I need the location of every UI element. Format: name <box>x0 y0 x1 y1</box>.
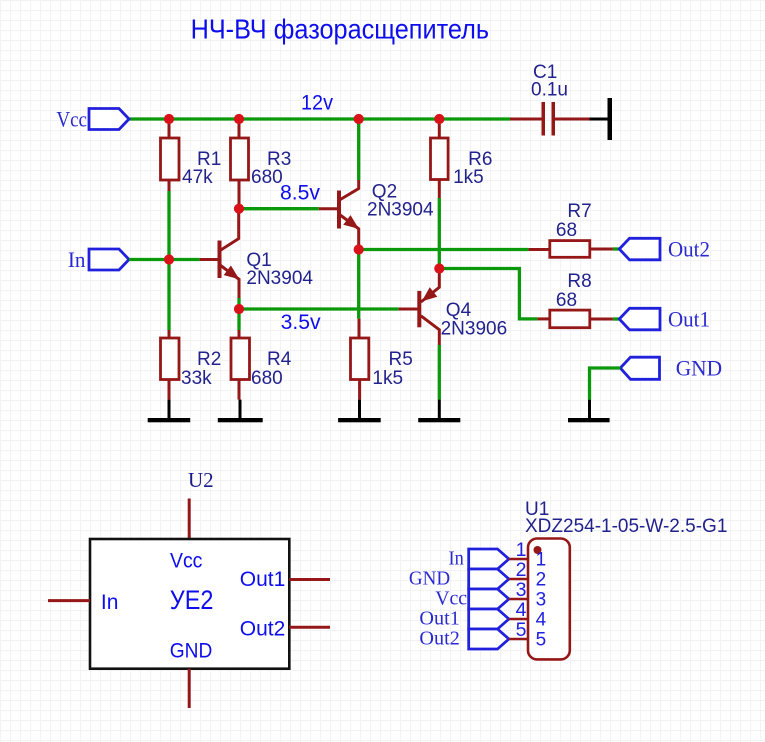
svg-text:1k5: 1k5 <box>453 167 484 188</box>
svg-text:1: 1 <box>536 550 547 571</box>
svg-text:Vcc: Vcc <box>170 550 202 573</box>
port Out1 <box>619 308 660 330</box>
ground under R2 <box>168 400 171 418</box>
svg-text:Out1: Out1 <box>419 608 459 630</box>
svg-text:Out2: Out2 <box>240 618 286 641</box>
wire In <box>129 258 200 261</box>
wire to Out1 <box>613 317 619 320</box>
net flag GND <box>469 569 509 589</box>
resistor R4 <box>238 330 241 338</box>
resistor R6 <box>438 119 441 138</box>
svg-text:2: 2 <box>536 570 547 591</box>
resistor R5 <box>358 319 361 338</box>
ground under Q4 <box>438 400 441 418</box>
svg-text:47k: 47k <box>182 167 213 188</box>
resistor R1 <box>168 119 171 138</box>
net flag Out1 <box>469 609 509 629</box>
svg-text:680: 680 <box>251 167 283 188</box>
svg-text:In: In <box>101 591 119 614</box>
svg-text:2N3904: 2N3904 <box>367 200 434 221</box>
wire 3.5v to R4 <box>237 309 240 330</box>
svg-text:R2: R2 <box>197 349 221 370</box>
transistor Q4 <box>399 269 440 346</box>
svg-text:5: 5 <box>516 619 527 641</box>
port In <box>89 249 129 270</box>
wire 8.5v <box>239 207 319 210</box>
junction Q2 emitter node <box>354 244 364 254</box>
svg-text:Vcc: Vcc <box>56 106 87 131</box>
svg-text:68: 68 <box>556 290 577 311</box>
svg-text:Out2: Out2 <box>419 628 459 650</box>
svg-text:GND: GND <box>409 568 450 590</box>
wire node to R8 <box>439 269 537 319</box>
ground at C1 <box>590 118 608 121</box>
svg-text:НЧ-ВЧ фазорасщепитель: НЧ-ВЧ фазорасщепитель <box>191 14 489 45</box>
wire 3.5v to Q4 base <box>239 307 399 310</box>
svg-text:УЕ2: УЕ2 <box>170 585 214 615</box>
svg-text:1k5: 1k5 <box>372 368 403 389</box>
svg-text:0.1u: 0.1u <box>531 80 568 101</box>
junction Q4 emitter node <box>434 263 444 273</box>
wire Q2e to R5 <box>357 250 360 319</box>
svg-text:Out2: Out2 <box>668 236 710 261</box>
ground at GND port <box>588 400 591 418</box>
net flag Out2 <box>469 629 509 649</box>
wire Q1 emitter <box>237 298 240 309</box>
wire Q2 emitter <box>357 245 360 250</box>
junction In node <box>164 254 174 264</box>
resistor R2 <box>168 330 171 338</box>
net flag In <box>469 549 509 569</box>
U1 pin 4 stub <box>509 618 529 621</box>
U1 pin 1 stub <box>509 558 529 561</box>
svg-text:4: 4 <box>516 599 527 621</box>
port Out2 <box>619 238 660 259</box>
svg-text:12v: 12v <box>301 92 333 115</box>
U2 pin Out2 (right) <box>289 626 330 629</box>
svg-text:R5: R5 <box>389 349 413 370</box>
wire 12v rail <box>129 117 510 120</box>
junction 3.5v node <box>234 304 244 314</box>
svg-text:XDZ254-1-05-W-2.5-G1: XDZ254-1-05-W-2.5-G1 <box>525 516 727 537</box>
svg-text:In: In <box>449 548 464 570</box>
junction Vcc-R1 <box>164 114 174 124</box>
resistor R3 <box>238 119 241 138</box>
wire Q2e to R7 <box>359 248 529 251</box>
wire GND port <box>590 368 621 400</box>
U1 pin 1 marker dot <box>534 546 542 554</box>
U2 pin 1 (top) <box>188 499 191 540</box>
svg-text:GND: GND <box>676 356 722 381</box>
U1 pin 5 stub <box>509 638 529 641</box>
U1 pin 3 stub <box>509 598 529 601</box>
svg-text:2: 2 <box>516 559 527 581</box>
U1 pin 2 stub <box>509 578 529 581</box>
svg-text:3.5v: 3.5v <box>281 311 321 334</box>
junction Vcc-R6 <box>434 114 444 124</box>
svg-text:2N3904: 2N3904 <box>246 268 313 289</box>
svg-text:Out1: Out1 <box>240 568 286 591</box>
ground under R4 <box>239 400 242 418</box>
svg-text:Vcc: Vcc <box>435 588 467 610</box>
svg-text:2N3906: 2N3906 <box>441 319 508 340</box>
svg-text:GND: GND <box>170 640 213 663</box>
junction Vcc-Q2c <box>354 114 364 124</box>
wire R1-In-R2 <box>167 191 170 330</box>
svg-text:R7: R7 <box>567 201 591 222</box>
port Vcc <box>89 109 129 130</box>
IC U2 body <box>90 539 289 669</box>
U2 pin In (left) <box>48 599 90 602</box>
capacitor C1 <box>510 118 542 121</box>
wire to Out2 <box>613 247 619 250</box>
svg-text:68: 68 <box>556 220 577 241</box>
port GND <box>620 357 659 379</box>
wire Q2 collector <box>357 119 360 180</box>
svg-text:1: 1 <box>516 539 527 561</box>
net flag Vcc <box>469 589 509 609</box>
junction 8.5v node <box>234 204 244 214</box>
svg-text:R8: R8 <box>567 271 591 292</box>
svg-text:4: 4 <box>536 610 547 631</box>
svg-text:3: 3 <box>516 579 527 601</box>
svg-text:3: 3 <box>536 590 547 611</box>
svg-text:Out1: Out1 <box>668 306 710 331</box>
svg-text:680: 680 <box>251 368 283 389</box>
transistor Q2 <box>319 180 359 245</box>
svg-text:8.5v: 8.5v <box>280 182 320 205</box>
U2 pin Out1 (right) <box>289 578 330 581</box>
svg-text:In: In <box>68 247 86 272</box>
resistor R8 <box>537 317 549 320</box>
connector U1 body <box>528 539 570 660</box>
transistor Q1 <box>200 209 239 298</box>
wire Q4 collector to gnd <box>438 345 441 400</box>
svg-text:33k: 33k <box>181 368 212 389</box>
svg-text:5: 5 <box>536 630 547 651</box>
wire R6 to Q4 node <box>438 198 441 269</box>
U2 pin GND (bottom) <box>188 669 191 708</box>
svg-text:U2: U2 <box>188 468 214 492</box>
resistor R7 <box>528 248 549 251</box>
ground under R5 <box>358 400 361 418</box>
junction Vcc-R3 <box>234 114 244 124</box>
svg-text:R4: R4 <box>267 349 292 370</box>
